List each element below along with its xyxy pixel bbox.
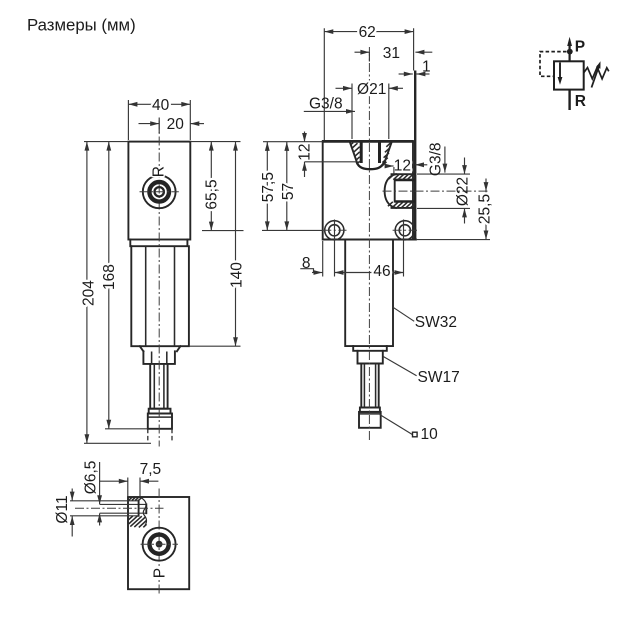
svg-text:140: 140 — [229, 262, 246, 288]
hatch lower region — [129, 516, 147, 527]
svg-text:SW32: SW32 — [415, 314, 457, 331]
SW17 locknut — [358, 351, 383, 364]
svg-text:7,5: 7,5 — [140, 461, 162, 478]
svg-text:P: P — [151, 568, 168, 578]
collar ring — [353, 346, 387, 351]
flow arrow inside box — [559, 63, 561, 80]
valve body block — [128, 142, 190, 240]
svg-text:12: 12 — [296, 143, 313, 160]
svg-text:62: 62 — [359, 24, 376, 41]
pilot dashed line — [540, 52, 567, 77]
port P circles — [143, 528, 176, 561]
body outline — [323, 141, 416, 239]
side port hatch top — [389, 174, 415, 179]
svg-text:8: 8 — [302, 255, 311, 272]
break line — [140, 497, 146, 527]
SW17 locknut — [143, 351, 175, 364]
label SW32 — [393, 307, 414, 321]
svg-text:46: 46 — [373, 263, 390, 280]
port R circles — [143, 175, 176, 208]
funnel hatch right — [382, 143, 391, 166]
vertical centerline — [158, 121, 160, 447]
dim 25,5 — [416, 239, 490, 241]
square end — [148, 414, 172, 429]
side port centerline — [383, 190, 490, 192]
svg-text:Ø22: Ø22 — [455, 177, 472, 206]
gauge port cross-hole (local section) — [70, 501, 139, 516]
top mounting face thick — [322, 140, 414, 143]
chamfer transition to SW17 — [140, 346, 181, 351]
stem — [361, 364, 378, 408]
svg-text:57,5: 57,5 — [260, 172, 277, 202]
stem collar — [149, 409, 171, 414]
dim 31 — [368, 52, 370, 62]
pilot junction dot — [567, 49, 573, 55]
G3/8 top port funnel — [350, 143, 392, 163]
svg-text:57: 57 — [280, 183, 297, 200]
svg-text:10: 10 — [421, 426, 439, 443]
dim 12 left — [304, 132, 306, 143]
vertical centerline — [158, 489, 160, 595]
spring — [584, 67, 609, 79]
svg-text:P: P — [575, 38, 585, 55]
svg-text:Ø21: Ø21 — [357, 81, 386, 98]
dim 62 — [324, 28, 413, 140]
svg-text:65,5: 65,5 — [203, 179, 220, 209]
funnel hatch left — [351, 143, 360, 164]
svg-text:G3/8: G3/8 — [309, 96, 343, 113]
dim 20 — [158, 118, 160, 134]
svg-text:SW17: SW17 — [418, 369, 460, 386]
svg-text:Ø6,5: Ø6,5 — [82, 461, 99, 495]
side port hatch bottom — [388, 202, 415, 208]
adjustment stem — [150, 364, 167, 409]
adjustment arrow — [592, 65, 600, 88]
dim 65,5 — [190, 142, 243, 231]
svg-text:Ø11: Ø11 — [54, 495, 71, 523]
P arrowhead up — [567, 37, 572, 46]
dim 57 — [286, 142, 288, 231]
SW32 hex body — [131, 246, 189, 346]
vertical centerline — [368, 47, 370, 441]
dim 140 — [189, 345, 241, 347]
dim 57,5 — [262, 142, 323, 231]
svg-text:R: R — [575, 93, 586, 110]
side port G3/8 (sectioned) — [392, 174, 415, 208]
label SW17 — [384, 357, 417, 376]
dim 1 — [399, 73, 413, 75]
sandwich plate thick edge — [414, 71, 416, 240]
svg-text:G3/8: G3/8 — [428, 142, 445, 176]
svg-text:R: R — [151, 166, 168, 177]
svg-text:204: 204 — [81, 280, 98, 306]
port P line — [568, 44, 570, 61]
bolt hole right — [395, 221, 414, 240]
dim O22 — [417, 174, 470, 208]
bolt hole left — [325, 221, 344, 240]
svg-text:40: 40 — [152, 97, 170, 114]
label square 10 — [380, 415, 413, 435]
svg-text:31: 31 — [383, 45, 400, 62]
svg-text:12: 12 — [394, 158, 411, 175]
hex corner lines — [146, 246, 175, 346]
svg-text:25,5: 25,5 — [476, 194, 493, 224]
hatch upper strip — [129, 497, 142, 500]
svg-text:1: 1 — [422, 59, 431, 76]
dim 46 — [335, 220, 404, 277]
body rectangle — [128, 497, 189, 589]
flange below body — [130, 240, 187, 247]
port R line — [568, 90, 570, 110]
port horizontal centerline — [140, 191, 179, 193]
dim 204 — [84, 142, 151, 444]
hole centerline — [75, 507, 164, 509]
stem collar — [360, 408, 380, 412]
SW32 hex below body — [345, 240, 393, 346]
svg-text:20: 20 — [167, 116, 185, 133]
phantom extended position — [148, 429, 172, 443]
svg-text:168: 168 — [101, 264, 118, 290]
square end — [359, 412, 381, 428]
dim 168 — [105, 428, 148, 430]
svg-text:Размеры (мм): Размеры (мм) — [27, 16, 136, 35]
dim 40 — [128, 100, 190, 140]
valve box — [554, 61, 584, 89]
dim O21 — [352, 84, 389, 140]
